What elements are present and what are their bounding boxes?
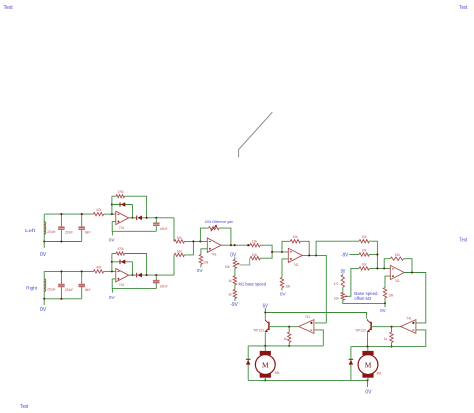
wire feedback vertical R bbox=[111, 254, 113, 272]
resistor 10k diff input bottom bbox=[174, 253, 184, 256]
wire Q1 base from driver op-amp bbox=[270, 326, 299, 328]
diode feedback DL1 bbox=[112, 204, 133, 206]
capacitor CR2 68nF bbox=[81, 271, 83, 284]
resistor 10k M2 plus to 0V bbox=[385, 276, 390, 287]
svg-text:10k: 10k bbox=[252, 253, 257, 257]
svg-text:M: M bbox=[262, 360, 269, 369]
svg-text:10k: 10k bbox=[225, 265, 230, 269]
diode feedback DR1 bbox=[112, 261, 133, 263]
resistor 1k Q1 base bbox=[288, 327, 290, 332]
svg-text:741: 741 bbox=[395, 279, 400, 283]
potentiometer 10k base speed offset M2 bbox=[342, 287, 344, 292]
svg-text:220nF: 220nF bbox=[65, 231, 73, 235]
svg-text:M: M bbox=[365, 360, 372, 369]
svg-text:Left: Left bbox=[25, 228, 36, 233]
wire op-amp plus input to 0V rail R bbox=[112, 279, 156, 289]
svg-text:M2: M2 bbox=[377, 372, 382, 376]
wire M1 sum minus node bbox=[272, 251, 288, 253]
wire ladder bottom L bbox=[44, 241, 81, 243]
svg-text:10k: 10k bbox=[362, 262, 367, 266]
ground 0V diff plus bbox=[200, 265, 202, 268]
inductor LR 220uH bbox=[43, 271, 45, 298]
svg-text:470: 470 bbox=[334, 282, 339, 286]
svg-text:741: 741 bbox=[406, 316, 411, 320]
diode output DL2 bbox=[129, 217, 137, 219]
potentiometer 100k difference gain feedback bbox=[200, 228, 208, 241]
resistor 10k diff input top bbox=[174, 240, 184, 243]
wire M2 sum output bbox=[404, 273, 426, 323]
svg-text:741: 741 bbox=[119, 226, 125, 230]
svg-text:1k: 1k bbox=[228, 279, 232, 283]
wire U7 minus feedback to emitter bbox=[416, 330, 426, 347]
svg-text:Right: Right bbox=[26, 285, 38, 290]
op-amp U7 741 M2 driver bbox=[401, 320, 416, 334]
wire M1 out cross-couple to M2 sum bbox=[316, 241, 359, 255]
svg-text:TIP122: TIP122 bbox=[355, 328, 366, 332]
svg-text:1k: 1k bbox=[284, 337, 288, 341]
op-amp U3 741 difference bbox=[207, 238, 221, 252]
svg-text:Text: Text bbox=[459, 238, 467, 244]
op-amp UR 741 bbox=[116, 269, 129, 282]
op-amp UL 741 bbox=[116, 211, 129, 224]
resistor 10k diff out to M1 sum bbox=[250, 244, 260, 247]
resistor 470k feedback R bbox=[112, 253, 116, 255]
svg-text:0V: 0V bbox=[197, 268, 204, 273]
svg-text:offset M2: offset M2 bbox=[354, 296, 372, 301]
capacitor 100nF R bbox=[155, 275, 157, 280]
diode D5 flyback M1 bbox=[247, 346, 249, 381]
svg-text:-9V: -9V bbox=[230, 302, 238, 308]
svg-text:10k: 10k bbox=[362, 235, 367, 239]
wire to op-amp R bbox=[104, 270, 116, 272]
svg-text:100k Difference gain: 100k Difference gain bbox=[205, 219, 233, 224]
svg-text:-9V: -9V bbox=[341, 252, 349, 258]
svg-text:0V: 0V bbox=[230, 252, 237, 258]
power -9V pot chain bbox=[234, 298, 236, 301]
svg-text:10k: 10k bbox=[177, 249, 182, 253]
svg-text:0V: 0V bbox=[40, 307, 47, 313]
svg-text:10k: 10k bbox=[395, 253, 400, 257]
svg-text:220uH: 220uH bbox=[47, 287, 56, 291]
svg-text:0V: 0V bbox=[280, 292, 287, 297]
resistor 10k M1 plus to 0V bbox=[282, 259, 288, 278]
capacitor CL2 68nF bbox=[81, 214, 83, 227]
svg-text:Text: Text bbox=[20, 404, 29, 410]
resistor 10k offset to M2 sum bbox=[359, 267, 369, 270]
capacitor CL1 220nF bbox=[60, 214, 62, 227]
wire to op-amp L bbox=[104, 213, 116, 215]
resistor 10k M1 feedback bbox=[282, 241, 290, 252]
svg-text:0V: 0V bbox=[109, 295, 116, 300]
ground 0V ladder R bbox=[43, 299, 45, 305]
wire M1 emitter rail bbox=[264, 333, 266, 346]
op-amp U5 741 M2 sum bbox=[390, 265, 404, 279]
svg-text:741: 741 bbox=[305, 315, 310, 319]
inductor LL 220uH bbox=[43, 214, 45, 241]
ground 0V M1 plus bbox=[281, 288, 283, 291]
svg-text:470k: 470k bbox=[118, 190, 124, 194]
svg-text:10k: 10k bbox=[203, 260, 208, 264]
ground 0V bottom bbox=[367, 380, 369, 387]
svg-text:Text: Text bbox=[4, 5, 14, 11]
svg-text:10k: 10k bbox=[252, 239, 257, 243]
capacitor CR1 220nF bbox=[60, 271, 62, 284]
motor M1 bbox=[264, 346, 266, 351]
svg-text:47k: 47k bbox=[96, 266, 102, 270]
svg-text:0V: 0V bbox=[365, 390, 372, 396]
svg-text:68nF: 68nF bbox=[85, 231, 91, 235]
wire diff output bbox=[221, 244, 250, 246]
svg-text:1k: 1k bbox=[228, 292, 232, 296]
wire plus input to ground resistor bbox=[201, 249, 207, 255]
svg-text:0V: 0V bbox=[109, 238, 116, 243]
resistor 10k pot to M1 sum bbox=[250, 257, 260, 260]
svg-text:0V: 0V bbox=[380, 308, 387, 313]
svg-text:M1 base speed: M1 base speed bbox=[239, 282, 267, 287]
junction dots ladder R bbox=[60, 270, 62, 272]
wire Q2 base from driver op-amp bbox=[372, 326, 402, 328]
svg-text:0V: 0V bbox=[40, 252, 47, 258]
wire ladder top L bbox=[44, 213, 93, 215]
svg-text:741: 741 bbox=[119, 283, 125, 287]
resistor 470 offset bbox=[341, 275, 344, 287]
svg-text:100nF: 100nF bbox=[160, 284, 168, 288]
svg-text:10k: 10k bbox=[334, 296, 339, 300]
op-amp U4 741 M1 sum bbox=[288, 248, 302, 262]
svg-text:470k: 470k bbox=[118, 247, 124, 251]
wire feedback vertical L bbox=[111, 196, 113, 214]
ground 0V M2 plus bbox=[384, 303, 386, 307]
svg-text:10k: 10k bbox=[177, 236, 182, 240]
wire 0V bottom rail bbox=[248, 379, 367, 381]
svg-text:10k: 10k bbox=[285, 285, 290, 289]
diode D6 flyback M2 bbox=[350, 347, 352, 381]
resistor 10k -9V to M2 sum bbox=[359, 253, 369, 256]
wire ladder top R bbox=[44, 270, 93, 272]
motor M2 bbox=[367, 347, 369, 351]
diode output DR2 bbox=[129, 274, 137, 276]
svg-text:Text: Text bbox=[459, 5, 467, 11]
svg-text:M1: M1 bbox=[275, 371, 280, 375]
potentiometer 10k M1 base speed bbox=[233, 259, 236, 268]
resistor 1k pot chain lower bbox=[234, 285, 236, 290]
wire Right output to difference amp bbox=[173, 255, 175, 275]
wire pot bottom to 0V junction bbox=[343, 300, 385, 303]
svg-text:47k: 47k bbox=[96, 208, 102, 212]
resistor 470k feedback L bbox=[112, 195, 116, 197]
svg-text:1k: 1k bbox=[384, 337, 388, 341]
wire wiper to 10k M2 bbox=[347, 268, 359, 296]
op-amp U6 741 M1 driver bbox=[299, 320, 314, 334]
junction dots ladder L bbox=[60, 213, 62, 215]
wire op-amp plus input to 0V rail L bbox=[112, 222, 156, 232]
resistor 10k to 0V at diff plus input bbox=[199, 255, 202, 265]
svg-text:10k: 10k bbox=[362, 249, 367, 253]
svg-text:100nF: 100nF bbox=[160, 227, 168, 231]
svg-text:741: 741 bbox=[293, 263, 298, 267]
transistor Q1 TIP122 bbox=[264, 313, 266, 319]
resistor 1k Q2 base bbox=[391, 327, 393, 332]
wire U6 minus feedback to emitter bbox=[314, 330, 323, 346]
svg-text:10k: 10k bbox=[388, 294, 393, 298]
wire pot wiper to 10k bbox=[240, 258, 250, 265]
capacitor 100nF L bbox=[155, 218, 157, 223]
svg-text:10k: 10k bbox=[293, 235, 298, 239]
svg-text:741: 741 bbox=[211, 252, 216, 256]
annotation line (gray) bbox=[239, 112, 273, 157]
resistor 1k pot chain upper bbox=[234, 268, 236, 276]
wire M2 emitter rail bbox=[367, 333, 369, 347]
resistor 10k M1-to-M2 bbox=[359, 240, 369, 243]
resistor 10k M2 feedback bbox=[384, 259, 390, 269]
svg-text:220uH: 220uH bbox=[47, 230, 56, 234]
svg-text:TIP122: TIP122 bbox=[253, 328, 264, 332]
wire Left output to difference amp bbox=[173, 218, 175, 242]
transistor Q2 TIP122 bbox=[370, 322, 371, 330]
svg-text:68nF: 68nF bbox=[85, 288, 91, 292]
resistor 47k L bbox=[94, 212, 104, 215]
svg-text:220nF: 220nF bbox=[65, 288, 73, 292]
ground 0V ladder L bbox=[43, 242, 45, 248]
resistor 47k R bbox=[94, 270, 104, 273]
wire M1 sum output bbox=[302, 255, 326, 323]
wire ladder bottom R bbox=[44, 298, 81, 300]
